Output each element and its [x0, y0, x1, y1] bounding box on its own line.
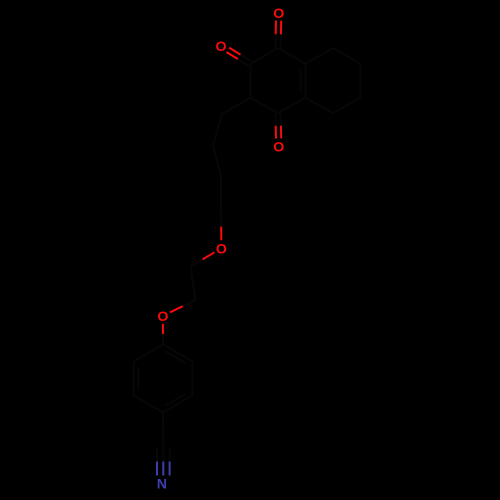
svg-text:O: O: [273, 140, 284, 156]
svg-text:O: O: [215, 39, 226, 55]
svg-text:O: O: [157, 309, 168, 325]
svg-text:O: O: [216, 241, 227, 257]
svg-text:N: N: [157, 477, 167, 493]
svg-text:O: O: [273, 6, 284, 22]
